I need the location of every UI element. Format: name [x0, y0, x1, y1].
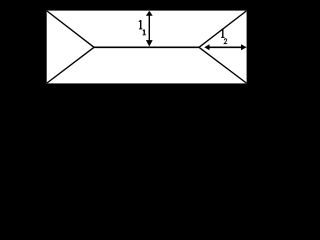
hip line top-right: [199, 11, 246, 47]
hip line top-left: [47, 11, 94, 47]
roof outline rectangle: [47, 11, 247, 84]
ridge line: [94, 46, 199, 48]
label l1: [139, 20, 146, 35]
hip line bottom-right: [199, 47, 246, 83]
dimension arrow l1 (vertical, double-headed): [146, 11, 153, 47]
hip line bottom-left: [47, 47, 94, 83]
dimension arrow l2 (horizontal, double-headed): [204, 44, 246, 50]
label l2: [221, 29, 227, 44]
